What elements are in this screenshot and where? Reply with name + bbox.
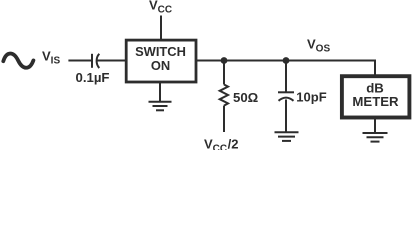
junction node A (221, 57, 228, 64)
svg-text:VCC: VCC (149, 0, 172, 16)
AC source VIS (sine symbol) (3, 54, 33, 68)
svg-text:ON: ON (151, 58, 170, 73)
svg-text:50Ω: 50Ω (233, 90, 259, 105)
wire C1 to switch box (97, 60, 125, 62)
wire VCC to switch box (160, 16, 162, 41)
capacitor C1 0.1uF (92, 54, 99, 68)
switch box U1 (126, 40, 196, 82)
dB meter box M1 (342, 76, 410, 117)
wire VIS to C1 (68, 60, 91, 62)
main wire: switch output to dB meter corner (195, 61, 375, 76)
svg-text:VOS: VOS (307, 37, 330, 55)
svg-text:0.1µF: 0.1µF (76, 70, 110, 85)
junction node B (283, 57, 290, 64)
svg-text:VIS: VIS (42, 49, 60, 67)
wire dB meter to ground (374, 118, 376, 133)
svg-text:VCC/2: VCC/2 (204, 136, 238, 150)
svg-text:SWITCH: SWITCH (135, 44, 186, 59)
resistor R1 50ohm (220, 61, 228, 133)
capacitor C2 10pF (278, 61, 294, 133)
svg-text:10pF: 10pF (296, 89, 326, 104)
ground under C2 (275, 132, 299, 141)
ground under dB meter (363, 133, 388, 142)
svg-text:METER: METER (352, 94, 399, 109)
ground under switch box (149, 82, 172, 110)
